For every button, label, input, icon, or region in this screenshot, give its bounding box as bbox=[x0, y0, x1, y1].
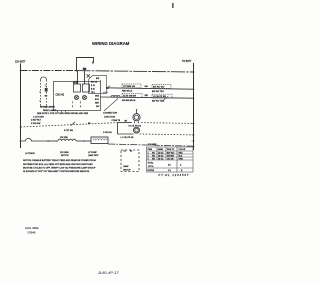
svg-text:JL60-4P-17: JL60-4P-17 bbox=[97, 271, 119, 275]
svg-text:BAT RLY TB-2: BAT RLY TB-2 bbox=[152, 100, 164, 103]
svg-text:COLOR: COLOR bbox=[179, 149, 186, 151]
svg-text:TO BATT: TO BATT bbox=[182, 60, 192, 63]
node dots left vertical bbox=[20, 70, 22, 72]
node pins under box A bbox=[58, 111, 66, 113]
svg-text:MUST BE CYCLED TO OFF. VERIFY: MUST BE CYCLED TO OFF. VERIFY LOW OIL PR… bbox=[23, 167, 96, 170]
svg-text:RED W14-A: RED W14-A bbox=[122, 90, 133, 93]
svg-text:G OR 194: G OR 194 bbox=[103, 132, 112, 134]
svg-text:FT-NL 1234567: FT-NL 1234567 bbox=[159, 173, 190, 177]
breaker label block line1 bbox=[122, 84, 141, 88]
svg-text:CKT BKR 15A: CKT BKR 15A bbox=[123, 85, 136, 88]
svg-text:B 20: B 20 bbox=[91, 89, 95, 91]
svg-text:LO OIL PR 1/8: LO OIL PR 1/8 bbox=[129, 125, 141, 127]
svg-text:16 GA: 16 GA bbox=[158, 154, 164, 157]
box relay upper chamfered bbox=[89, 76, 107, 94]
svg-text:DISTRIBUTION BOX. ALL FEED CKT: DISTRIBUTION BOX. ALL FEED CKT BKRS AND … bbox=[23, 163, 93, 166]
svg-text:LAMP: LAMP bbox=[123, 165, 129, 168]
svg-text:MOTOR: MOTOR bbox=[61, 155, 69, 157]
svg-text:14 GA: 14 GA bbox=[158, 151, 164, 154]
note text under box bbox=[31, 106, 89, 126]
svg-text:NOTICE: DISABLE BATTERY RELAY: NOTICE: DISABLE BATTERY RELAY FEED AND R… bbox=[23, 159, 96, 162]
node border ticks bbox=[192, 72, 195, 146]
svg-text:C2: C2 bbox=[124, 151, 126, 153]
svg-text:4: 4 bbox=[80, 106, 81, 108]
svg-text:RLY 15: RLY 15 bbox=[91, 82, 97, 84]
svg-text:3: 3 bbox=[72, 106, 73, 108]
svg-text:12V GEN: 12V GEN bbox=[60, 152, 69, 154]
wire left bus vertical bbox=[20, 64, 22, 149]
svg-text:17848: 17848 bbox=[27, 230, 35, 234]
svg-text:OIL SW: OIL SW bbox=[167, 158, 174, 160]
svg-text:ST-RT IGN SW: ST-RT IGN SW bbox=[123, 96, 136, 98]
svg-text:GND: GND bbox=[95, 96, 100, 98]
svg-text:TOTAL: TOTAL bbox=[148, 162, 154, 165]
page background bbox=[0, 0, 218, 285]
svg-text:RED: RED bbox=[179, 152, 184, 154]
svg-text:1: 1 bbox=[72, 102, 73, 104]
node jumper junction bbox=[76, 70, 78, 72]
wire to lamp 2 bbox=[118, 133, 134, 135]
wire lamp1 right dashed bbox=[141, 122, 193, 125]
connector bumps line2 bbox=[111, 96, 120, 97]
lamp indicator double circle bbox=[133, 114, 140, 121]
svg-text:WIRING DIAGRAM: WIRING DIAGRAM bbox=[92, 41, 130, 46]
wire top bus right bbox=[77, 71, 194, 72]
box pump with coil bbox=[91, 137, 108, 144]
svg-text:LAMP GRP: LAMP GRP bbox=[88, 154, 99, 157]
wire line2 to border bbox=[100, 97, 193, 98]
svg-text:W1: W1 bbox=[152, 152, 155, 154]
wire line1 to border bbox=[106, 88, 193, 89]
svg-text:W1 HARN: W1 HARN bbox=[148, 143, 157, 146]
box CBX #1 bbox=[54, 82, 101, 111]
svg-text:IS SHOWN IN "OFF" OR "RELAXED": IS SHOWN IN "OFF" OR "RELAXED" POSITION … bbox=[23, 170, 90, 173]
svg-text:2: 2 bbox=[148, 155, 149, 157]
svg-text:18 GA: 18 GA bbox=[158, 157, 164, 160]
node ticks on branch bbox=[39, 91, 41, 93]
lamp 2 circle bbox=[134, 127, 140, 133]
svg-text:6.5: 6.5 bbox=[168, 164, 171, 166]
svg-text:12V GEN: 12V GEN bbox=[60, 137, 68, 139]
svg-text:CKT A: CKT A bbox=[148, 165, 154, 168]
svg-text:3 IGN SW: 3 IGN SW bbox=[31, 123, 40, 125]
svg-text:GROUP: GROUP bbox=[123, 170, 131, 172]
svg-text:2 BAT RLY: 2 BAT RLY bbox=[31, 119, 42, 122]
svg-text:L.O OIL PR 1/8: L.O OIL PR 1/8 bbox=[121, 137, 134, 139]
coil motor winding bbox=[58, 139, 76, 141]
relay label block line1 right bbox=[152, 85, 171, 89]
svg-text:BAT RLY 24V: BAT RLY 24V bbox=[153, 86, 165, 89]
wire drops from bus bbox=[77, 71, 79, 85]
leader line bbox=[104, 99, 118, 112]
svg-text:FRONT LAMPS: FRONT LAMPS bbox=[40, 106, 55, 109]
svg-text:15 20: 15 20 bbox=[74, 82, 79, 84]
svg-text:4 CKT SW: 4 CKT SW bbox=[64, 130, 73, 132]
svg-text:RUN TO: RUN TO bbox=[167, 149, 175, 151]
wire dashed mid left bbox=[21, 123, 118, 127]
tiny text right column in box bbox=[91, 77, 100, 108]
legend dashed box bbox=[121, 150, 139, 172]
svg-text:NOTES: NOTES bbox=[148, 170, 155, 172]
wire vertical drop bbox=[117, 123, 119, 134]
svg-text:1 CKT BKR: 1 CKT BKR bbox=[33, 116, 44, 118]
wire to lamp 1 bbox=[118, 122, 133, 124]
svg-text:1: 1 bbox=[148, 152, 149, 154]
wire jumper arrow bbox=[77, 58, 94, 71]
wire bottom with curl bbox=[21, 139, 49, 142]
wire bottom right dashed bbox=[108, 144, 193, 146]
svg-text:WIRE: WIRE bbox=[158, 149, 164, 151]
svg-text:1-3: 1-3 bbox=[168, 170, 171, 172]
svg-text:2: 2 bbox=[80, 102, 81, 104]
svg-text:CBX #1: CBX #1 bbox=[56, 93, 65, 96]
wire top bus horizontal bbox=[21, 70, 77, 72]
svg-text:LP PUMP: LP PUMP bbox=[88, 152, 97, 154]
svg-text:GRN: GRN bbox=[179, 158, 184, 160]
svg-text:W3: W3 bbox=[152, 158, 155, 160]
svg-text:CONNECTOR: CONNECTOR bbox=[103, 113, 117, 115]
svg-text:B 15: B 15 bbox=[91, 85, 95, 87]
svg-text:CONN TB: CONN TB bbox=[112, 120, 121, 122]
lamp circle-x pair bbox=[74, 95, 86, 99]
svg-text:AUG 1994: AUG 1994 bbox=[25, 226, 39, 230]
note paragraph bbox=[23, 159, 96, 173]
connector pin filled bbox=[45, 88, 48, 92]
svg-text:ITEM: ITEM bbox=[148, 149, 153, 151]
svg-text:IGN SW: IGN SW bbox=[167, 155, 174, 157]
svg-text:LO OIL PR SW: LO OIL PR SW bbox=[153, 96, 166, 98]
svg-text:IGN SW W14-B: IGN SW W14-B bbox=[122, 100, 136, 102]
svg-text:REAR LAMPS: REAR LAMPS bbox=[43, 109, 57, 112]
relay contacts small boxes bbox=[74, 84, 81, 92]
fuse X mark bbox=[83, 68, 86, 70]
svg-text:SEE NOTE 1 FOR CKT BKR WIRE RA: SEE NOTE 1 FOR CKT BKR WIRE RATING AND S… bbox=[37, 112, 89, 115]
wire branch bottom bbox=[41, 106, 54, 108]
oil sw label block line2 right bbox=[152, 94, 172, 98]
svg-text:LH TRACK: LH TRACK bbox=[25, 152, 36, 155]
ign label block line2 bbox=[122, 94, 142, 98]
fuse branch dashed loop bbox=[41, 77, 47, 80]
node line1 exit blob bbox=[106, 87, 108, 89]
svg-text:W2: W2 bbox=[152, 155, 155, 157]
wire right border vertical bbox=[193, 63, 195, 150]
svg-text:BAT RLY TB-1: BAT RLY TB-1 bbox=[152, 90, 164, 93]
wire lamp2 right dashed bbox=[140, 133, 194, 136]
svg-text:TB 1: TB 1 bbox=[91, 92, 95, 94]
table wire list bbox=[147, 147, 194, 172]
svg-text:B1: B1 bbox=[130, 151, 132, 153]
page mark top right bbox=[172, 3, 174, 8]
svg-text:JUNCTION: JUNCTION bbox=[104, 117, 115, 119]
svg-text:NEG: NEG bbox=[95, 103, 99, 105]
svg-text:12V BATT: 12V BATT bbox=[15, 61, 26, 64]
switch in dashed line bbox=[71, 122, 76, 126]
svg-text:BAT RLY: BAT RLY bbox=[167, 151, 175, 154]
svg-text:3: 3 bbox=[148, 158, 149, 160]
